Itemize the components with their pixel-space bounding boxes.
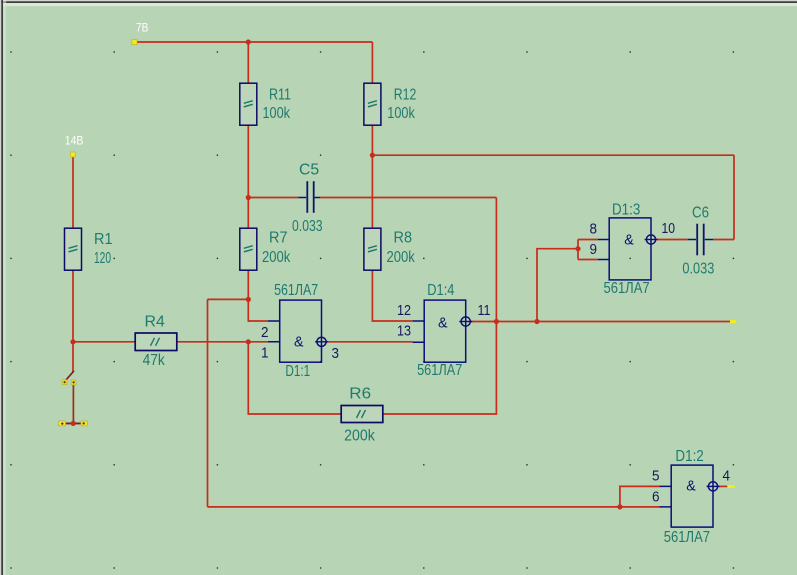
NAND gate D1:3 (590, 202, 676, 298)
svg-text:14В: 14В (65, 134, 84, 148)
svg-text:R11: R11 (269, 87, 291, 104)
wire D1:2 out stub (718, 485, 728, 487)
svg-text:C5: C5 (299, 162, 319, 179)
wire 7V rail (135, 41, 373, 43)
wire rail to R12 (371, 42, 373, 83)
svg-text:200k: 200k (262, 249, 290, 266)
wire node A left branch (208, 298, 249, 300)
svg-text:561ЛА7: 561ЛА7 (274, 282, 318, 299)
wire out node up to C5 (495, 198, 497, 322)
wire C5 left to R11/R7 node (248, 197, 298, 199)
junction D1:2 input tie (617, 504, 622, 509)
svg-text:R1: R1 (94, 231, 113, 248)
NAND gate D1:2 (652, 448, 730, 546)
switch S1 (62, 371, 76, 424)
svg-text:0.033: 0.033 (292, 218, 323, 235)
wire node to R4 (73, 341, 135, 343)
svg-text:0.033: 0.033 (682, 261, 714, 278)
svg-text:R12: R12 (394, 87, 417, 104)
junction D1:4 out / C5-R6 branch (494, 319, 499, 324)
svg-text:9: 9 (590, 242, 598, 258)
wire long vertical to D1:2 (207, 299, 209, 507)
svg-text:5: 5 (652, 469, 660, 485)
svg-text:&: & (438, 315, 448, 332)
junction node B (R4 / D1:1 pin1 / R6) (246, 339, 251, 344)
svg-text:11: 11 (478, 303, 491, 319)
pin 7V (132, 21, 149, 45)
svg-text:47k: 47k (143, 352, 165, 369)
wire D1:3 out to C6 (656, 239, 688, 241)
pin 14V (65, 134, 84, 158)
junction 7V rail / R11 (246, 39, 251, 44)
svg-text:D1:2: D1:2 (675, 448, 703, 465)
svg-text:200k: 200k (387, 249, 415, 266)
junction D1:3 input tie (575, 246, 580, 251)
connector X1 (ground bar) (58, 421, 87, 426)
svg-text:R7: R7 (269, 230, 288, 247)
wire feedback to D1:3 inputs (537, 249, 578, 322)
wire right run down to C6 (733, 155, 735, 239)
wire R1 bottom to node (72, 270, 74, 342)
junction D1:4 out / D1:3 feedback (534, 319, 539, 324)
junction R12 / right run (370, 153, 375, 158)
wire bottom run to D1:2 pin6 (208, 506, 660, 508)
capacitor C6 (682, 205, 714, 278)
NAND gate D1:1 (261, 282, 339, 380)
wire R12 to R8 (371, 125, 373, 228)
wire R11 to R7 (247, 125, 249, 228)
wire R6 right up to out node (383, 322, 496, 415)
svg-text:4: 4 (723, 469, 731, 485)
svg-text:D1:1: D1:1 (285, 363, 310, 380)
svg-text:&: & (294, 334, 304, 351)
resistor R4 (135, 314, 177, 370)
svg-text:C6: C6 (692, 205, 709, 222)
svg-text:8: 8 (590, 222, 598, 238)
wire rail to R11 (247, 42, 249, 83)
wire node A to D1:1 pin2 (248, 299, 268, 321)
svg-text:R6: R6 (349, 386, 371, 403)
svg-text:R8: R8 (394, 230, 413, 247)
capacitor C5 (292, 162, 323, 236)
svg-text:120: 120 (94, 250, 111, 267)
svg-text:12: 12 (397, 303, 411, 319)
svg-text:&: & (686, 478, 696, 495)
junction C5 / R11-R7 (246, 195, 251, 200)
pin output D1:2 (yellow) (727, 485, 734, 488)
wire R7 bottom to node A (247, 270, 249, 299)
svg-text:&: & (624, 231, 634, 248)
junction node A (R7 / D1:1 pin2 / D1:2 branch) (246, 297, 251, 302)
svg-text:10: 10 (662, 221, 676, 237)
svg-text:R4: R4 (145, 314, 166, 331)
svg-text:7В: 7В (136, 21, 148, 35)
wire R8 bottom to D1:4 pin12 (372, 270, 412, 321)
svg-text:2: 2 (261, 325, 269, 341)
resistor R1 (65, 228, 113, 270)
pin output D1:4 (yellow) (730, 320, 736, 324)
resistor R12 (364, 83, 416, 125)
wire D1:3 input tie (578, 240, 598, 260)
wire R4 to D1:1 pin1 (177, 341, 268, 343)
svg-text:13: 13 (397, 324, 411, 340)
wire C6 right stub wire (713, 239, 734, 241)
wire D1:1 out to D1:4 pin13 (326, 341, 412, 343)
NAND gate D1:4 (397, 282, 491, 379)
svg-text:100k: 100k (387, 105, 415, 122)
wire D1:2 pin5 branch (620, 486, 660, 507)
svg-text:561ЛА7: 561ЛА7 (604, 280, 650, 297)
wire 14V pin to R1 (72, 157, 74, 228)
svg-text:561ЛА7: 561ЛА7 (664, 529, 710, 546)
junction R1 / R4 / switch (70, 339, 75, 344)
resistor R8 (364, 228, 415, 270)
resistor R6 (341, 386, 383, 445)
wire D1:4 output run (470, 321, 730, 323)
resistor R11 (240, 83, 291, 125)
svg-text:3: 3 (332, 346, 340, 362)
svg-text:200k: 200k (344, 428, 375, 445)
svg-text:1: 1 (261, 346, 269, 362)
svg-text:561ЛА7: 561ЛА7 (417, 362, 462, 379)
wire C5 right to corner (320, 197, 496, 199)
svg-text:D1:3: D1:3 (612, 202, 640, 219)
wire node B down to R6 (248, 342, 341, 414)
svg-text:D1:4: D1:4 (427, 282, 454, 299)
svg-text:6: 6 (652, 490, 660, 506)
wire R12 node right run (372, 154, 734, 156)
wire switch upper (72, 342, 74, 372)
svg-text:100k: 100k (263, 105, 291, 122)
resistor R7 (240, 228, 291, 270)
